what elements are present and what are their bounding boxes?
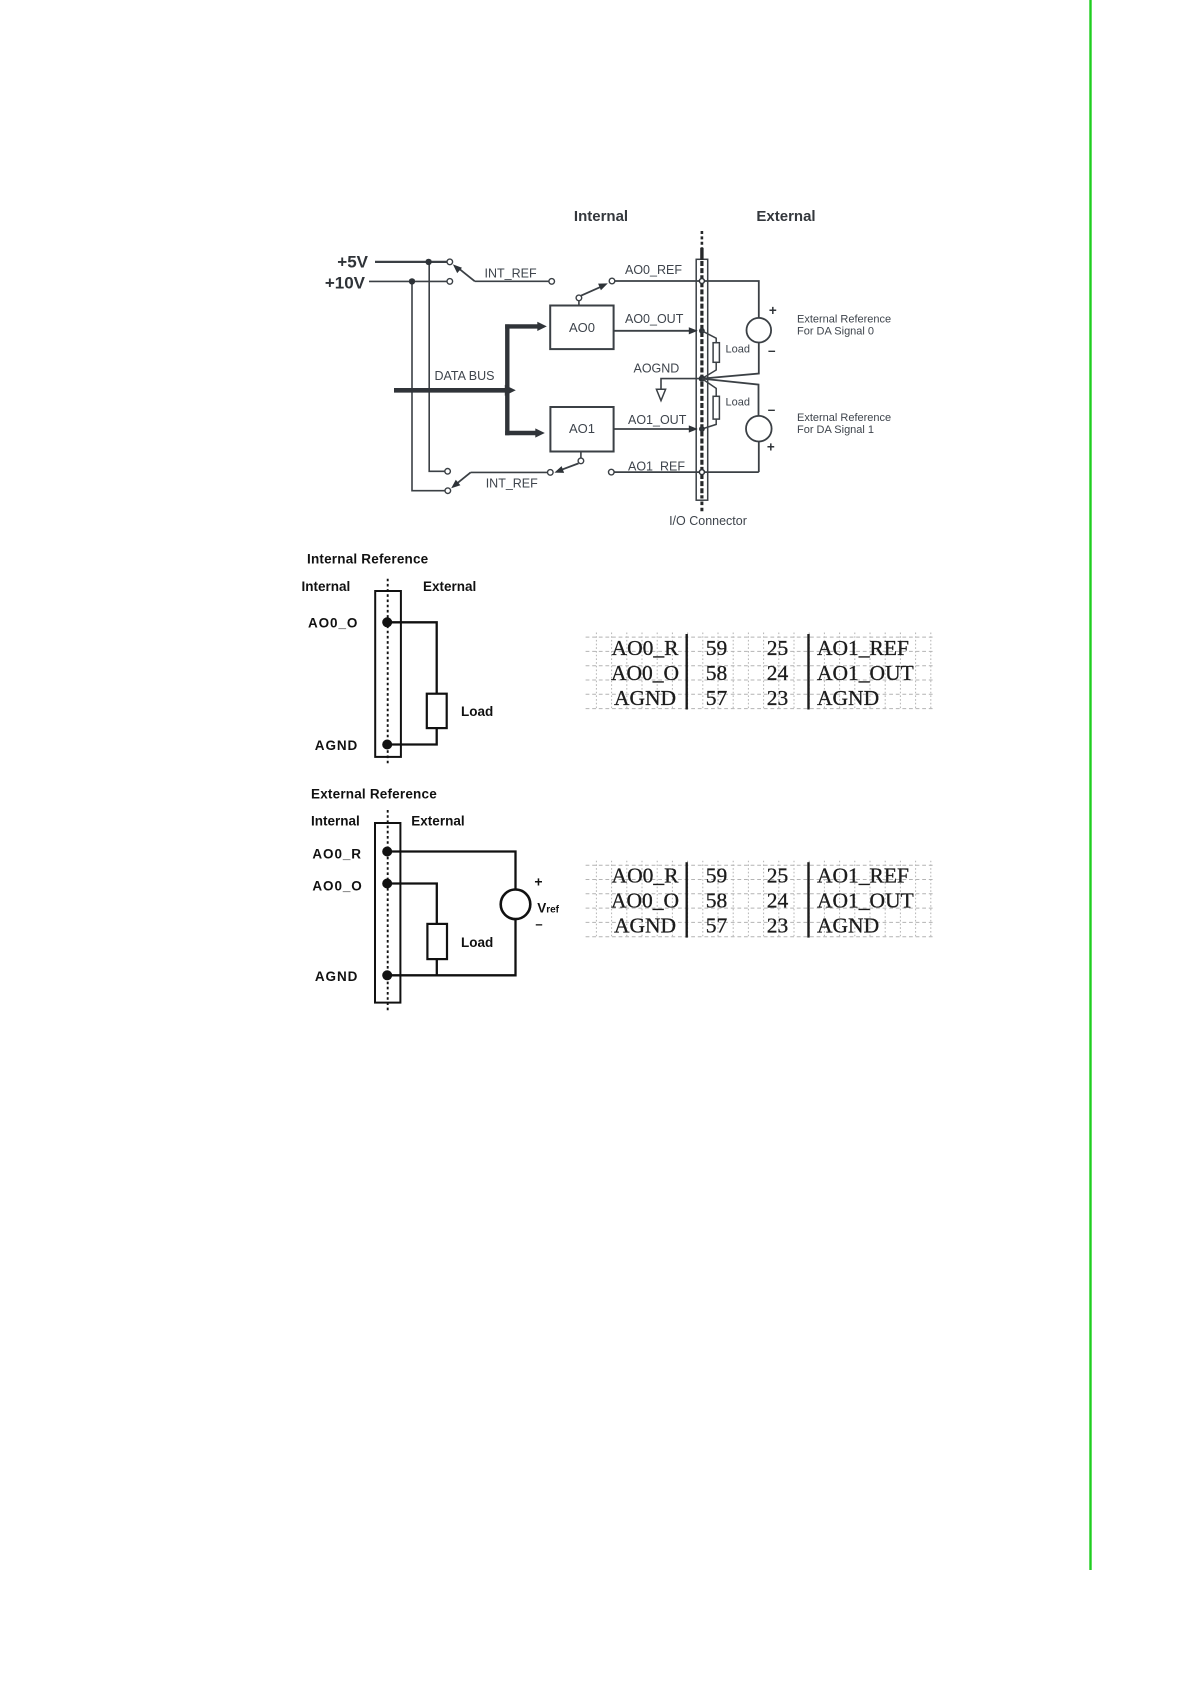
svg-text:AO0_OUT: AO0_OUT (625, 312, 684, 326)
svg-text:Load: Load (726, 344, 750, 356)
switch contact +10V (open circle) (447, 279, 453, 285)
svg-text:AO1_REF: AO1_REF (817, 864, 909, 888)
svg-text:External: External (423, 579, 476, 594)
load resistor 1 (702, 379, 716, 397)
wire AO0_R to Vref plus (388, 852, 516, 889)
svg-text:AO1_OUT: AO1_OUT (817, 889, 914, 913)
switch lever upper INT_REF (458, 267, 475, 281)
I/O connector bottom tail (700, 502, 703, 514)
data bus vertical (505, 324, 509, 435)
svg-text:AOGND: AOGND (634, 362, 680, 376)
svg-text:25: 25 (767, 864, 789, 888)
svg-text:Internal Reference: Internal Reference (307, 552, 429, 567)
junction +10V (409, 278, 415, 284)
svg-text:24: 24 (767, 661, 789, 685)
connector dotted centerline (ext) (387, 810, 389, 1011)
svg-text:Load: Load (461, 935, 493, 950)
pin AO0_R (dot) (382, 847, 392, 857)
wire INT_REF lower (471, 471, 548, 473)
svg-text:Internal: Internal (574, 208, 628, 225)
svg-text:AO1_REF: AO1_REF (817, 636, 909, 660)
switch contact +5V lower (open circle) (445, 469, 451, 475)
svg-text:External Reference: External Reference (311, 787, 437, 802)
load resistor 0 (702, 331, 716, 343)
svg-text:INT_REF: INT_REF (485, 266, 537, 280)
svg-text:59: 59 (706, 864, 728, 888)
wire AO0_O to load (ext) (388, 884, 437, 924)
switch lever lower INT_REF (455, 472, 471, 485)
wire AO0_OUT (614, 330, 695, 332)
wire AGND to Vref minus (388, 919, 516, 976)
svg-text:23: 23 (767, 686, 789, 710)
junction AO0_REF at connector (open ring) (699, 279, 704, 284)
wire +5V rail (375, 261, 447, 263)
switch at AO0 reference input (578, 301, 580, 306)
svg-text:–: – (535, 917, 542, 932)
node INT_REF lower (open circle) (548, 470, 554, 476)
svg-text:External: External (756, 208, 815, 225)
junction +5V (425, 259, 431, 265)
svg-text:AO0_REF: AO0_REF (625, 263, 682, 277)
svg-text:58: 58 (706, 661, 728, 685)
svg-text:24: 24 (767, 889, 789, 913)
svg-text:–: – (768, 402, 776, 417)
I/O connector top tail (701, 231, 704, 249)
svg-text:AO0_O: AO0_O (312, 879, 362, 894)
svg-text:For DA Signal 1: For DA Signal 1 (797, 424, 874, 436)
wire AOGND to source1 minus (702, 379, 759, 416)
svg-text:AO0_R: AO0_R (312, 847, 362, 862)
junction AOGND at connector (699, 375, 705, 381)
voltage source: external reference for DA signal 0 (747, 318, 772, 343)
green page border line (1089, 0, 1091, 1570)
svg-text:AO1_OUT: AO1_OUT (817, 661, 914, 685)
wire +10V rail (369, 280, 447, 282)
svg-text:DATA BUS: DATA BUS (435, 369, 495, 383)
svg-text:AO0_O: AO0_O (611, 889, 679, 913)
svg-text:AO1: AO1 (569, 421, 595, 436)
svg-text:58: 58 (706, 889, 728, 913)
connector body (external ref diagram) (375, 823, 400, 1003)
svg-text:AO0_O: AO0_O (308, 616, 358, 631)
I/O connector body (696, 259, 708, 500)
DAC block AO1 (550, 407, 613, 452)
svg-text:I/O Connector: I/O Connector (669, 514, 747, 528)
svg-text:AO0_R: AO0_R (612, 636, 680, 660)
svg-text:Load: Load (461, 704, 493, 719)
svg-text:INT_REF: INT_REF (486, 476, 538, 490)
svg-text:Internal: Internal (302, 579, 351, 594)
svg-text:AGND: AGND (315, 969, 358, 984)
connector dotted centerline (387, 579, 389, 764)
pin AO0_O dot (ext) (382, 879, 392, 889)
wire load bottom to AGND (ext) (436, 959, 438, 975)
svg-text:AGND: AGND (817, 686, 879, 710)
Vref source circle (501, 890, 531, 920)
svg-text:23: 23 (767, 914, 789, 938)
svg-text:Internal: Internal (311, 813, 360, 828)
pin table grid (upper) (596, 633, 930, 711)
svg-text:57: 57 (706, 914, 728, 938)
svg-text:+5V: +5V (337, 253, 368, 272)
pin AGND (dot) (382, 740, 392, 750)
pin AGND dot (ext) (382, 970, 392, 980)
svg-text:AGND: AGND (614, 914, 676, 938)
svg-text:AGND: AGND (614, 686, 676, 710)
svg-text:AO0: AO0 (569, 320, 595, 335)
switch contact +5V (open circle) (447, 259, 453, 265)
svg-text:+: + (767, 440, 775, 455)
svg-text:For DA Signal 0: For DA Signal 0 (797, 325, 874, 337)
ground arrow (open) (656, 389, 665, 400)
wire source1 bottom to AO1_REF (758, 442, 760, 473)
svg-text:+: + (769, 303, 777, 318)
svg-text:External Reference: External Reference (797, 313, 891, 325)
wire AO1_REF (614, 471, 759, 473)
wire AO0_REF (615, 281, 759, 318)
svg-text:+: + (534, 874, 542, 890)
svg-text:External Reference: External Reference (797, 412, 891, 424)
switch at AO1 reference input (580, 452, 582, 459)
pin table divider bars (lower) (686, 862, 688, 937)
voltage source: external reference for DA signal 1 (746, 416, 772, 442)
svg-text:–: – (768, 343, 776, 358)
svg-text:AO0_O: AO0_O (611, 661, 679, 685)
wire AGND to load (388, 728, 437, 744)
junction AO1_REF at connector (open ring) (699, 470, 704, 475)
pin AO0_O (dot) (382, 617, 392, 627)
I/O connector center dashed line (700, 261, 703, 499)
wire AOGND branch (661, 379, 702, 389)
svg-text:AO0_R: AO0_R (612, 864, 680, 888)
wire AO0_O to load (388, 622, 437, 693)
data bus branch to AO0 (505, 324, 538, 328)
data bus branch to AO1 (505, 431, 536, 435)
load resistor (external ref) (427, 924, 447, 959)
DAC block AO0 (550, 306, 613, 350)
svg-text:AO1_OUT: AO1_OUT (628, 413, 687, 427)
load resistor (internal ref) (427, 694, 447, 728)
pin table divider bars (upper) (686, 634, 688, 710)
svg-text:57: 57 (706, 686, 728, 710)
junction AO1_OUT at connector (699, 426, 705, 432)
wire INT_REF upper (475, 280, 549, 282)
connector body (internal ref diagram) (375, 591, 401, 757)
svg-text:External: External (411, 813, 464, 828)
data bus trunk arrow (394, 388, 506, 393)
svg-text:Load: Load (726, 397, 750, 409)
svg-text:+10V: +10V (325, 274, 366, 293)
junction AO0_OUT at connector (699, 328, 705, 334)
svg-text:25: 25 (767, 636, 789, 660)
wire AO1_OUT (614, 428, 695, 430)
wire source0 bottom to AOGND (702, 343, 759, 379)
svg-text:AGND: AGND (817, 914, 879, 938)
svg-text:59: 59 (706, 636, 728, 660)
svg-text:Vref: Vref (537, 900, 559, 915)
node INT_REF upper (open circle) (549, 279, 555, 285)
svg-text:AGND: AGND (315, 738, 358, 753)
wire +10V drop to lower switch (412, 282, 445, 491)
wire +5V drop to lower switch (429, 262, 444, 471)
pin table grid (lower) (596, 861, 930, 938)
switch contact +10V lower (open circle) (445, 488, 451, 494)
